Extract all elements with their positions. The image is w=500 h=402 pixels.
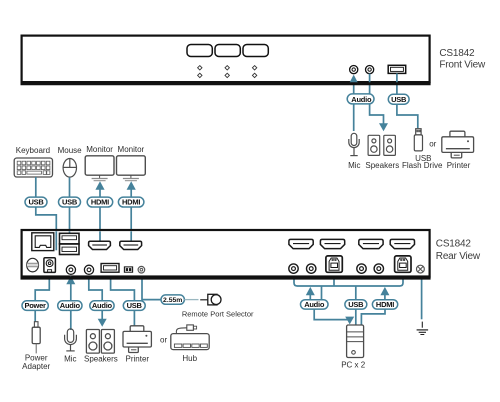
svg-text:HDMI: HDMI (122, 198, 140, 207)
icon speakers (rear) (86, 330, 114, 354)
icon PC tower (347, 325, 364, 358)
svg-text:Remote Port Selector: Remote Port Selector (182, 310, 254, 319)
wire front USB to flash drive (397, 73, 418, 128)
wire monitor 2 segment inside rear panel (130, 231, 132, 241)
wire bus down to Audio pill (321, 286, 323, 300)
callout pill USB (PC) (345, 300, 367, 309)
callout pill Audio (front) (347, 94, 374, 104)
callout pill USB (printer) (123, 301, 145, 311)
wire monitor 2 (arrow up) (127, 181, 136, 241)
svg-text:PC x 2: PC x 2 (341, 360, 366, 369)
callout pill USB (keyboard) (25, 197, 47, 207)
callout pill Audio (mic) (58, 301, 82, 311)
rear PC1 HDMI port B (320, 239, 344, 248)
svg-text:USB: USB (127, 301, 143, 310)
icon hub (171, 325, 209, 350)
rear PC2 USB-B port (395, 256, 411, 272)
svg-text:Monitor: Monitor (118, 145, 145, 154)
front speaker jack (366, 66, 374, 74)
rear PC2 HDMI port A (359, 239, 383, 248)
pushbutton 2 (215, 45, 240, 57)
svg-text:Rear View: Rear View (436, 251, 481, 262)
wire remote jack to 2.55m pill (142, 278, 161, 300)
rear USB-A console port upper (60, 233, 80, 244)
wire rear speaker jack to speakers (arrow down) (89, 278, 107, 327)
pushbutton 3 (243, 45, 268, 57)
svg-text:Power: Power (24, 301, 46, 310)
callout pill Power (22, 301, 48, 311)
wire USB pill to PC (355, 309, 357, 325)
label CS1842 Rear View (436, 239, 481, 262)
icon printer (rear) (123, 326, 151, 353)
svg-text:Flash Drive: Flash Drive (402, 161, 443, 170)
rear PC2 speaker jack (374, 264, 383, 273)
text or (rear) (160, 335, 167, 344)
RJ45 console port (32, 233, 54, 251)
front USB port (388, 65, 406, 73)
remote port selector icon (208, 294, 221, 305)
svg-text:Audio: Audio (92, 301, 113, 310)
svg-text:Speakers: Speakers (365, 161, 399, 170)
wire mouse to rear USB port (69, 177, 71, 233)
svg-text:USB: USB (348, 300, 364, 309)
wire monitor 1 (arrow up) (95, 181, 104, 241)
rear PC1 speaker jack (307, 264, 316, 273)
remote port selector plug lead (200, 299, 207, 301)
svg-text:USB: USB (62, 198, 78, 207)
label PC x 2 (341, 360, 366, 369)
callout pill USB (front) (388, 94, 409, 104)
svg-text:Keyboard: Keyboard (16, 146, 50, 155)
rear speaker jack (console) (84, 265, 93, 274)
callout pill 2.55m (161, 295, 184, 304)
rear PC1 USB-B port (326, 256, 342, 272)
label CS1842 Front View (439, 48, 486, 70)
icon USB flash drive (414, 129, 422, 151)
wire bus down to USB pill (355, 286, 357, 300)
callout pill HDMI (monitor 2) (118, 197, 143, 207)
label Monitor 1 (86, 145, 113, 154)
front mic jack (350, 66, 358, 74)
rear console HDMI port 1 (89, 241, 111, 249)
svg-text:Printer: Printer (447, 161, 471, 170)
svg-text:Monitor: Monitor (86, 145, 113, 154)
wire Audio pill up arrow to bus (306, 287, 315, 300)
label Mic (front) (348, 161, 360, 170)
power rocker switch (27, 258, 39, 272)
icon printer (front) (442, 131, 474, 158)
icon keyboard (14, 158, 52, 177)
label Printer (rear) (126, 355, 150, 364)
front panel bottom thick edge (21, 82, 431, 85)
LED diamonds under buttons (198, 66, 257, 78)
icon speakers (front) (368, 135, 395, 155)
rear panel bottom thick edge (21, 277, 431, 280)
svg-text:Printer: Printer (126, 355, 150, 364)
svg-text:2.55m: 2.55m (163, 297, 182, 304)
callout pill Audio (speakers) (90, 301, 114, 311)
svg-text:Front View: Front View (439, 60, 486, 71)
wire rear USB-A to printer (111, 278, 135, 326)
rear mic jack (console) (66, 265, 75, 274)
label Power Adapter (22, 354, 50, 371)
rear PC1 mic jack (289, 264, 298, 273)
label Remote Port Selector (182, 310, 254, 319)
label Printer (front) (447, 161, 471, 170)
svg-text:USB: USB (391, 95, 407, 104)
svg-text:Audio: Audio (304, 300, 325, 309)
svg-text:or: or (160, 335, 167, 344)
callout pill Audio (PC) (301, 300, 329, 309)
svg-text:CS1842: CS1842 (439, 48, 475, 59)
rear PC2 mic jack (357, 264, 366, 273)
label USB Flash Drive (402, 154, 443, 170)
DC power jack (44, 258, 56, 273)
label Monitor 2 (118, 145, 145, 154)
svg-text:Speakers: Speakers (84, 355, 118, 364)
callout pill HDMI (PC) (372, 300, 397, 309)
wire HDMI pill to PC (361, 309, 385, 325)
front panel box CS1842 (22, 36, 430, 83)
label Speakers (rear) (84, 355, 118, 364)
wire grounding screw to earth (421, 278, 423, 320)
wire bus under rear PC ports (294, 278, 403, 286)
wire mic to rear mic jack (arrow up) (66, 276, 75, 330)
svg-text:HDMI: HDMI (91, 198, 109, 207)
label Mic (rear) (64, 355, 76, 364)
wire Audio pill to PC (arrow down) (314, 309, 354, 324)
wire DC jack to power adapter (35, 278, 49, 322)
icon monitor 1 (85, 156, 114, 181)
wire keyboard to rear USB port (36, 177, 57, 250)
rear console HDMI port 2 (120, 241, 142, 249)
svg-text:CS1842: CS1842 (436, 239, 472, 250)
svg-text:HDMI: HDMI (376, 300, 394, 309)
wire 2.55m pill to selector plug (184, 299, 198, 301)
svg-text:Audio: Audio (351, 95, 372, 104)
icon mouse (63, 159, 76, 178)
callout pill HDMI (monitor 1) (87, 197, 113, 207)
wire mouse segment inside rear panel (69, 231, 71, 233)
text or (front) (429, 139, 436, 148)
icon power adapter (32, 322, 40, 354)
earth ground symbol (417, 322, 429, 335)
icon monitor 2 (117, 156, 146, 181)
svg-text:Mic: Mic (348, 161, 360, 170)
svg-text:Mouse: Mouse (58, 146, 83, 155)
wire keyboard segment inside rear panel (55, 231, 57, 250)
rear USB-A console port lower (60, 244, 80, 255)
svg-text:Audio: Audio (60, 301, 81, 310)
svg-text:USB: USB (28, 198, 44, 207)
remote port selector jack (138, 266, 145, 273)
callout pill USB (mouse) (59, 197, 81, 207)
grounding screw (417, 265, 425, 273)
wire front mic (arrow up to mic jack) (349, 75, 358, 131)
pushbutton 1 (187, 45, 212, 57)
rear PC2 HDMI port B (390, 239, 414, 248)
icon mic (front) (349, 133, 359, 155)
label Hub (182, 354, 197, 363)
icon mic (rear) (65, 329, 77, 351)
DCC mini port (124, 267, 132, 272)
wire HDMI pill up arrow to bus (380, 287, 389, 300)
svg-text:Hub: Hub (182, 354, 197, 363)
rear PC1 HDMI port A (289, 239, 313, 248)
svg-text:or: or (429, 139, 436, 148)
svg-text:Adapter: Adapter (22, 362, 50, 371)
svg-text:Mic: Mic (64, 355, 76, 364)
label Speakers (front) (365, 161, 399, 170)
label Keyboard (16, 146, 50, 155)
rear USB-A peripheral port (101, 264, 119, 273)
rear panel box CS1842 (22, 230, 430, 277)
wire front speakers (arrow down to speakers) (370, 74, 388, 132)
label Mouse (58, 146, 83, 155)
wire monitor 1 segment inside rear panel (99, 231, 101, 241)
